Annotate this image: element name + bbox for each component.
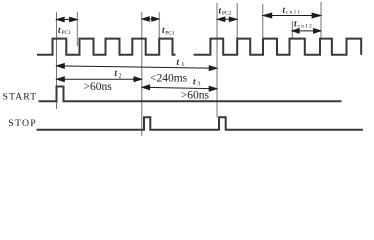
svg-text:PC1: PC1 (62, 30, 72, 36)
svg-text:1: 1 (181, 61, 184, 68)
svg-text:>60ns: >60ns (181, 90, 210, 102)
svg-text:PC1: PC1 (165, 30, 175, 36)
svg-text:<240ms: <240ms (150, 72, 188, 84)
svg-text:cn12: cn12 (298, 23, 314, 29)
svg-text:cn11: cn11 (286, 10, 301, 16)
svg-text:3: 3 (197, 81, 200, 88)
svg-text:START: START (3, 92, 38, 103)
svg-text:STOP: STOP (8, 118, 37, 129)
svg-text:t: t (115, 68, 118, 78)
svg-text:t: t (193, 76, 196, 86)
svg-text:>60ns: >60ns (84, 81, 113, 93)
svg-text:t: t (177, 57, 180, 67)
svg-text:2: 2 (118, 73, 121, 80)
svg-text:PC2: PC2 (222, 10, 232, 16)
